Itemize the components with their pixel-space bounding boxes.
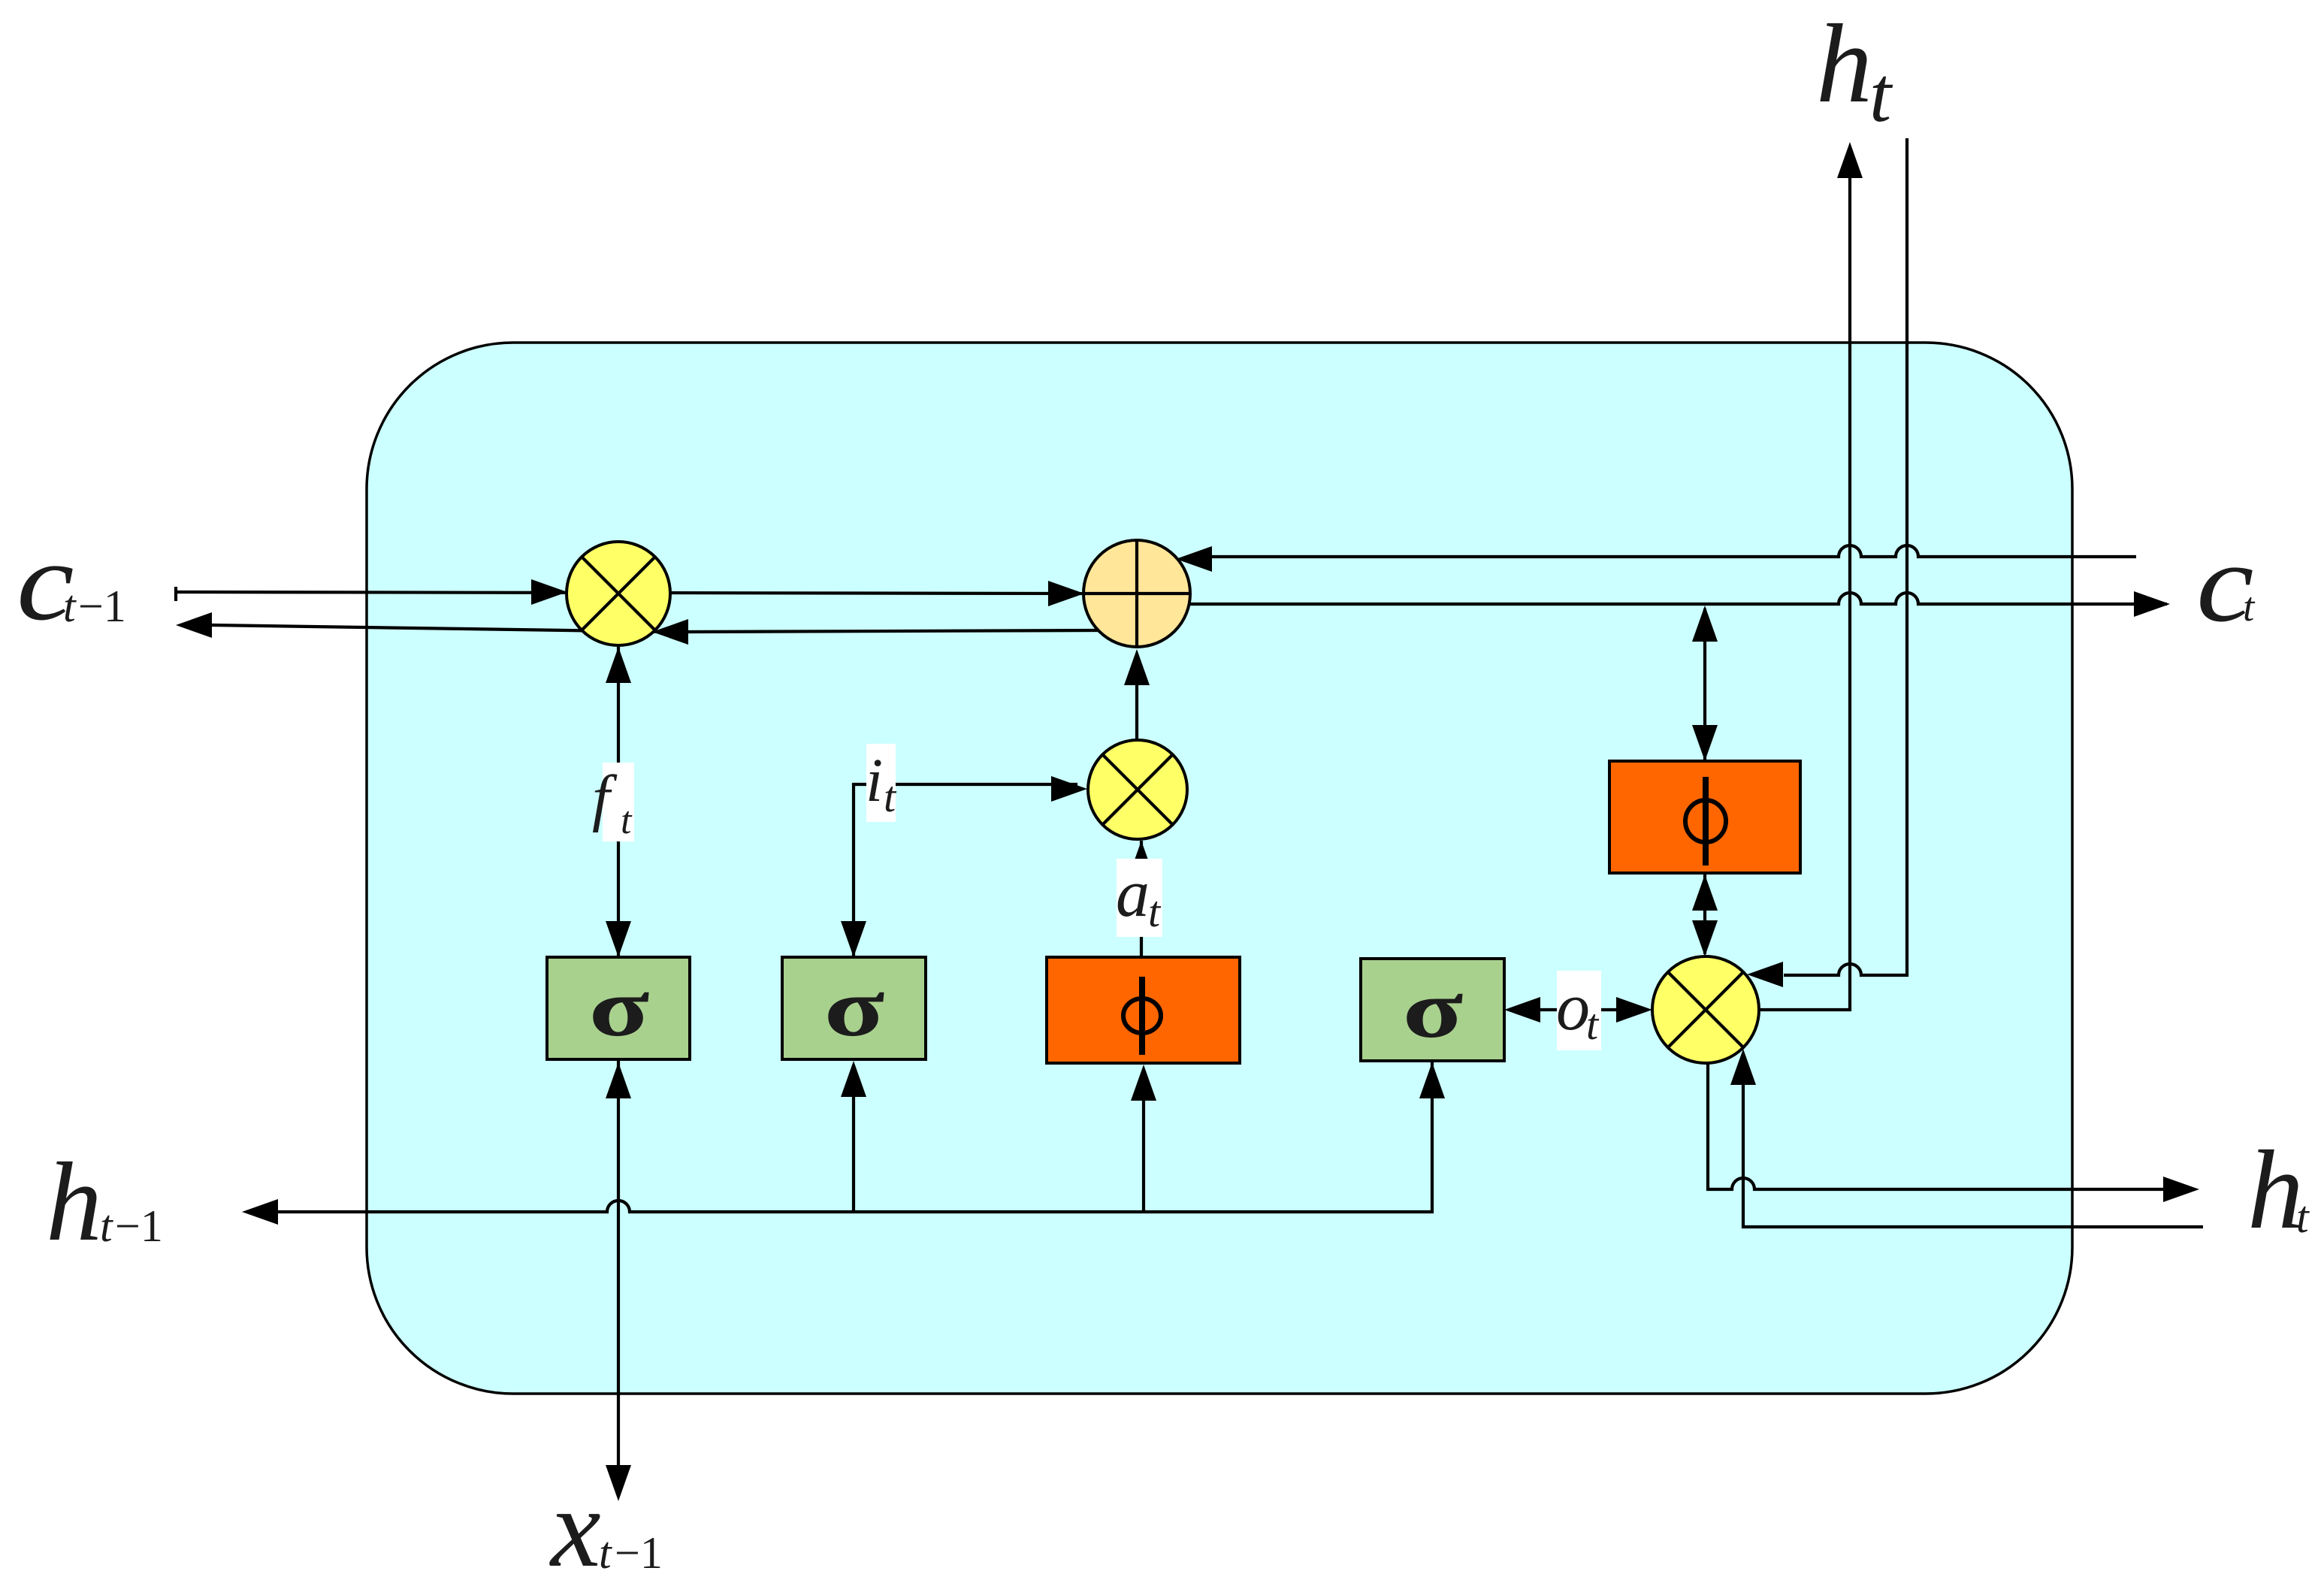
arrow up h_t output top <box>1837 142 1863 178</box>
arrow up into X2 bottom (a_t) <box>1129 841 1154 877</box>
svg-text:−1: −1 <box>615 1528 663 1578</box>
arrow left out to h_t-1 <box>242 1199 278 1225</box>
arrow down into X3 top <box>1692 920 1718 956</box>
arrow up into sigma1 bottom (x input) <box>606 1062 631 1098</box>
svg-text:t: t <box>1586 1000 1600 1049</box>
svg-text:t: t <box>1148 887 1162 936</box>
arrow backward out to c_t-1 <box>176 612 212 638</box>
label h_t top <box>1816 2 1893 138</box>
add node (plus) <box>1083 540 1190 647</box>
wire c backward mid (plus to X1) <box>688 630 1099 632</box>
arrow down into sigma1 top (f_t) <box>606 921 631 957</box>
wire x_t-1 vertical (sigma1 down out of cell) <box>617 1061 620 1467</box>
wire h_t output bottom (X3 down, corner, right out with hop) <box>1708 1062 2167 1189</box>
wire branch h to sigma2 <box>852 1070 855 1212</box>
arrow up into sigma4 bottom (h branch) <box>1419 1062 1445 1098</box>
wire X2 to plus <box>1135 655 1138 742</box>
arrow left into X3 top-right (h backward) <box>1747 962 1783 987</box>
svg-text:−1: −1 <box>78 582 126 631</box>
svg-text:t: t <box>621 799 633 842</box>
label c_t-1 <box>17 518 126 643</box>
wire f_t vertical (X1 to sigma1) <box>617 647 620 956</box>
arrow up into phi2 bottom <box>1692 875 1718 911</box>
label h_t-1 <box>46 1140 163 1264</box>
arrow up into X3 bottom (h backward) <box>1730 1049 1756 1085</box>
label a_t <box>1116 856 1162 937</box>
arrow down into phi2 top <box>1692 725 1718 761</box>
label i_t <box>866 744 897 822</box>
svg-text:i: i <box>866 745 883 814</box>
arrow down into sigma2 top (i_t) <box>841 921 866 957</box>
svg-text:σ: σ <box>824 962 885 1053</box>
arrow left into sigma4 right (o_t) <box>1504 997 1540 1023</box>
arrow right into X3 left (o_t) <box>1616 997 1652 1023</box>
gate sigma1 (forget) <box>547 957 690 1059</box>
arrow down out of cell (x_t-1) <box>606 1465 631 1501</box>
arrow up into X1 bottom (f_t) <box>606 647 631 683</box>
svg-text:t: t <box>1869 50 1893 138</box>
wire a_t (phi1 to X2) <box>1140 841 1143 957</box>
arrow up into sigma2 bottom (h branch) <box>841 1061 866 1097</box>
wire c backward left (X1 out to c_t-1) <box>212 625 669 632</box>
svg-text:t: t <box>2243 584 2256 630</box>
arrow into X1 from left <box>531 579 567 605</box>
svg-text:t: t <box>100 1201 113 1251</box>
multiply node X2 <box>1088 740 1187 839</box>
label o_t <box>1556 970 1601 1050</box>
svg-text:−1: −1 <box>115 1201 163 1251</box>
arrow right into X2 (i_t) <box>1051 776 1087 802</box>
arrow backward into X1 right <box>652 619 688 645</box>
arrowheads <box>176 142 2199 1501</box>
gate phi1 (candidate) <box>1047 957 1240 1063</box>
arrow into plus from left <box>1048 581 1084 606</box>
svg-text:a: a <box>1116 856 1150 931</box>
wire i_t (corner to sigma2 top and to X2) <box>854 784 1077 956</box>
svg-text:t: t <box>884 772 897 821</box>
svg-text:σ: σ <box>589 962 650 1053</box>
label c_t <box>2196 520 2256 645</box>
arrow up toward c line (phi2 upper) <box>1692 606 1718 642</box>
arrow c_t output right <box>2134 591 2170 617</box>
svg-text:h: h <box>1816 2 1872 126</box>
svg-text:x: x <box>549 1466 601 1586</box>
multiply node X3 <box>1652 956 1759 1063</box>
svg-text:h: h <box>2247 1128 2304 1252</box>
svg-text:t: t <box>63 582 77 631</box>
wire h backward top (down from top, corner, into X3 with hop) <box>1784 138 1907 975</box>
LSTM cell body <box>367 343 2072 1394</box>
arrow up into plus bottom <box>1124 649 1150 685</box>
svg-text:o: o <box>1556 970 1590 1044</box>
wire phi2 upper (c line down to phi2) <box>1703 609 1706 760</box>
wire branch h to phi1 <box>1142 1074 1145 1212</box>
multiply node X1 <box>567 542 670 645</box>
wire phi2 lower (phi2 to X3) <box>1703 875 1706 954</box>
wire c backward right (from right edge into plus) with hops <box>1208 545 2136 557</box>
label f_t <box>592 763 634 842</box>
svg-text:σ: σ <box>1403 964 1464 1055</box>
arrow up into phi1 bottom (h branch) <box>1131 1065 1156 1101</box>
arrow right h_t output bottom <box>2163 1177 2199 1202</box>
wire o_t (sigma4 to X3) <box>1513 1008 1643 1011</box>
wire h_t output top (X3 right, corner, up and out) <box>1759 178 1850 1010</box>
label x_t-1 <box>549 1466 663 1586</box>
svg-text:h: h <box>46 1140 102 1264</box>
wire h_t-1 horizontal with hop over x line, corner up to sigma4 <box>277 1062 1432 1212</box>
svg-text:t: t <box>599 1528 612 1578</box>
svg-text:t: t <box>2296 1192 2310 1242</box>
wire c forward left (c_t-1 into cell) <box>176 587 1082 601</box>
gate phi2 (cell tanh) <box>1609 761 1800 873</box>
wire h backward bottom (right edge, corner, up into X3) <box>1743 1082 2203 1227</box>
label h_t bottom right <box>2247 1128 2310 1252</box>
gate sigma2 (input) <box>782 957 926 1059</box>
wire c forward right (to c_t) with hops <box>1189 593 2167 604</box>
gate sigma4 (output) <box>1361 959 1504 1061</box>
arrow backward into plus top right <box>1176 546 1212 572</box>
